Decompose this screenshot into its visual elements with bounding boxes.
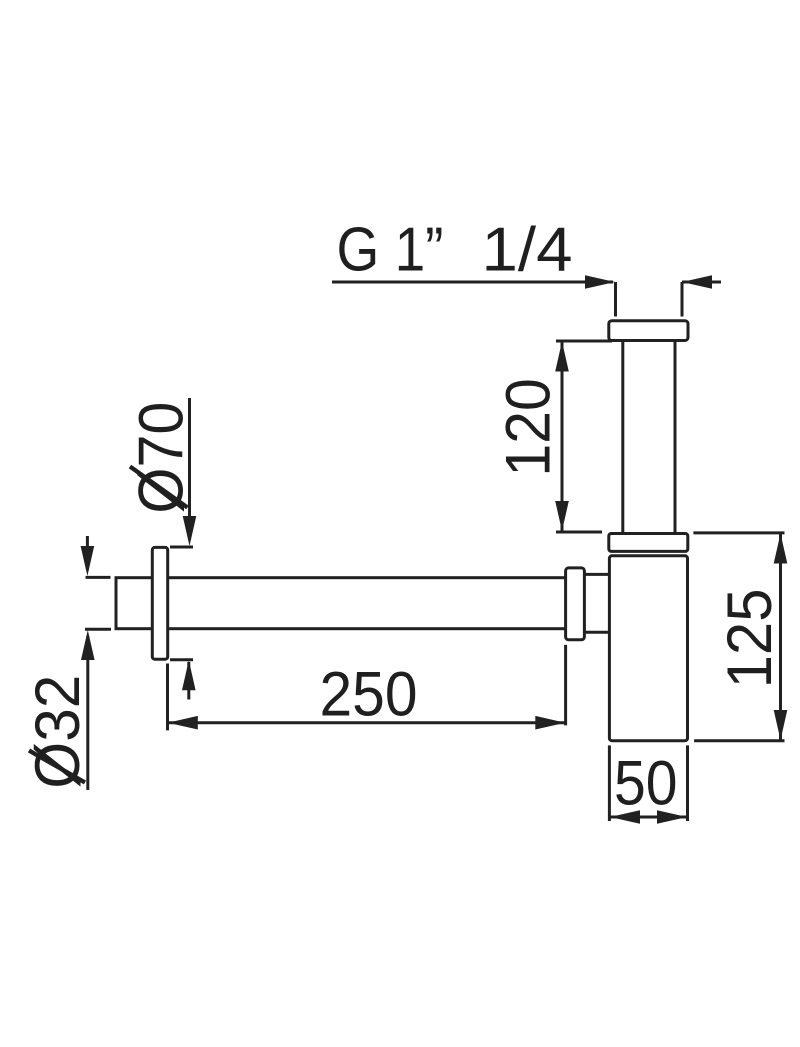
arrowhead dim 250 left (points left) (168, 716, 198, 730)
dim 120: extension line top (556, 340, 612, 343)
dim 50: extension line left (608, 745, 611, 821)
dim O32: extension line bottom (85, 628, 111, 631)
arrowhead dim O70 top (points down) (183, 516, 197, 546)
dim 250: extension line left (166, 664, 169, 731)
dim O70: extension line top (170, 546, 193, 549)
O32 diameter slash extension (29, 751, 85, 783)
arrowhead dim 125 top (points up) (774, 534, 788, 564)
dim 125: extension line bottom (694, 739, 784, 742)
dim G: tail line right (682, 281, 721, 284)
wall flange (Ø70) (152, 547, 167, 659)
arrowhead dim 120 bottom (points down) (555, 501, 569, 531)
svg-text:125: 125 (715, 588, 785, 688)
arrowhead dim G left (points right) (585, 275, 615, 289)
svg-text:G 1”: G 1” (337, 216, 444, 285)
dim O70: arrow shaft top (188, 398, 191, 540)
svg-text:250: 250 (320, 660, 418, 730)
dim O32: extension line top (86, 576, 111, 579)
svg-text:Ø70: Ø70 (127, 402, 197, 514)
arrowhead dim 120 top (points up) (555, 342, 569, 372)
arrowhead dim 50 left (points left) (610, 810, 640, 824)
compression collar nut (566, 568, 585, 640)
svg-text:1/4: 1/4 (482, 216, 573, 285)
dim 125: extension line top (693, 531, 784, 534)
body cap (609, 534, 688, 552)
dim G: leader line left (332, 281, 613, 284)
arrowhead dim 50 right (points right) (657, 810, 687, 824)
O70 diameter slash extension (130, 467, 188, 508)
dim 250: extension line right (564, 645, 567, 726)
top flange (G 1 1/4) (609, 321, 688, 341)
arrowhead dim 125 bottom (points down) (774, 710, 788, 740)
dim 250: dimension line (168, 721, 566, 724)
dim 50: dimension line (610, 816, 687, 819)
trap body (609, 556, 687, 741)
arrowhead dim O32 top (points down) (81, 546, 95, 576)
arrowhead dim G right (points left) (682, 275, 712, 289)
dim 120: extension line bottom (556, 531, 602, 534)
arrowhead dim 250 right (points right) (535, 716, 565, 730)
arrowhead dim O70 bottom (points up) (182, 660, 196, 690)
vertical tailpipe (623, 341, 675, 534)
dim G: extension line right (681, 282, 684, 317)
dim 125: dimension line (779, 534, 782, 740)
dim G: extension line left (614, 282, 617, 317)
svg-text:Ø32: Ø32 (23, 675, 93, 789)
arrowhead dim O32 bottom (points up) (81, 630, 95, 660)
dim 120: dimension line (561, 342, 564, 531)
dim O32: arrow shaft bottom (86, 636, 89, 790)
dim O70: arrow shaft bottom (187, 662, 190, 700)
dim O32: arrow shaft top (86, 536, 89, 570)
dim 50: extension line right (686, 745, 689, 821)
connector stub to body (584, 574, 612, 632)
svg-text:120: 120 (494, 378, 564, 477)
dim O70: extension line bottom (170, 658, 193, 661)
horizontal inlet pipe (116, 578, 570, 629)
svg-text:50: 50 (614, 749, 678, 819)
